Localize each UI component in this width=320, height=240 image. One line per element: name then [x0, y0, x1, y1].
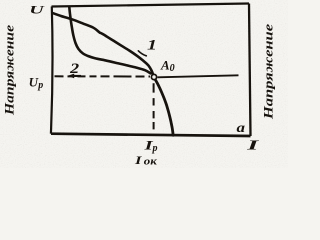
svg-text:U: U [29, 2, 46, 16]
horizontal solid line right of point A0 [158, 75, 239, 77]
axis frame: right border [249, 4, 251, 137]
svg-text:а: а [237, 121, 246, 136]
dashed vertical line at Ip [153, 83, 155, 130]
curve 1 lower branch (steep fall below operating point) [156, 80, 174, 135]
short bar behind arrowhead [74, 75, 82, 77]
svg-text:2: 2 [69, 61, 80, 77]
svg-text:1: 1 [147, 37, 157, 53]
curve 1 upper branch (source external characteristic) [53, 13, 153, 74]
svg-text:р: р [152, 143, 158, 154]
svg-text:Напряжение: Напряжение [261, 24, 276, 121]
axis frame: bottom border (I axis) [51, 134, 251, 136]
curve 2 (arc characteristic, steep then flat) [69, 7, 150, 73]
dashed horizontal line at Up level [55, 75, 151, 77]
svg-text:ок: ок [144, 156, 158, 167]
leader for label 1 [138, 51, 146, 56]
axis frame: top border [52, 4, 250, 7]
svg-text:I: I [245, 138, 260, 153]
scan noise overlay [0, 0, 1, 1]
svg-text:Напряжение: Напряжение [2, 25, 17, 116]
paper background [0, 0, 288, 168]
axis frame: left border (U axis) [51, 7, 53, 134]
left-pointing arrowhead on dashed Up line [67, 74, 74, 79]
operating point A0 (open circle) [151, 74, 156, 79]
